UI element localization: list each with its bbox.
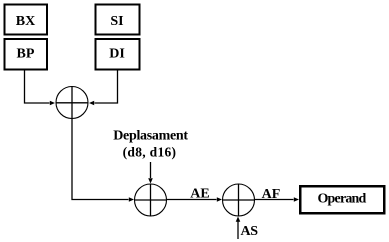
adder circle 1 <box>56 87 88 119</box>
wire from displacement down into adder 2 <box>150 162 152 178</box>
arrowhead into adder 1 left <box>50 101 55 106</box>
wire AF from adder 3 to operand box <box>255 199 294 201</box>
adder 3 cross vertical <box>238 184 240 217</box>
svg-text:Deplasament: Deplasament <box>113 129 188 144</box>
adder 2 cross horizontal <box>134 199 167 201</box>
svg-text:BX: BX <box>16 14 35 29</box>
svg-text:SI: SI <box>110 14 123 29</box>
arrowhead into adder 1 right <box>89 101 94 106</box>
register box BX <box>5 5 48 35</box>
wire AS up into adder 3 bottom <box>237 222 239 240</box>
svg-text:(d8, d16): (d8, d16) <box>123 145 177 160</box>
register box BP <box>5 39 48 70</box>
arrowhead into operand box <box>294 197 299 202</box>
svg-text:BP: BP <box>17 47 35 62</box>
register box DI <box>96 39 140 70</box>
adder 1 cross horizontal <box>56 102 89 104</box>
wire from BP box down and right into adder 1 <box>25 71 50 104</box>
arrowhead into adder 2 left <box>129 197 134 202</box>
svg-text:AF: AF <box>262 187 281 202</box>
register box SI <box>96 5 140 35</box>
arrowhead into adder 3 bottom <box>236 217 241 222</box>
adder 3 cross horizontal <box>222 199 255 201</box>
wire AE from adder 2 to adder 3 <box>167 199 217 201</box>
adder circle 3 <box>223 184 255 216</box>
adder 2 cross vertical <box>150 184 152 217</box>
arrowhead into adder 2 top <box>148 178 153 183</box>
wire from adder 1 down and right into adder 2 <box>72 119 129 200</box>
adder circle 2 <box>135 184 167 216</box>
svg-text:DI: DI <box>109 47 125 62</box>
svg-text:AS: AS <box>241 224 259 239</box>
adder 1 cross vertical <box>71 86 73 119</box>
wire from DI box down and left into adder 1 <box>95 71 118 104</box>
svg-text:AE: AE <box>190 187 209 202</box>
operand box <box>300 186 384 213</box>
svg-text:Operand: Operand <box>317 192 366 207</box>
arrowhead into adder 3 left <box>217 197 222 202</box>
